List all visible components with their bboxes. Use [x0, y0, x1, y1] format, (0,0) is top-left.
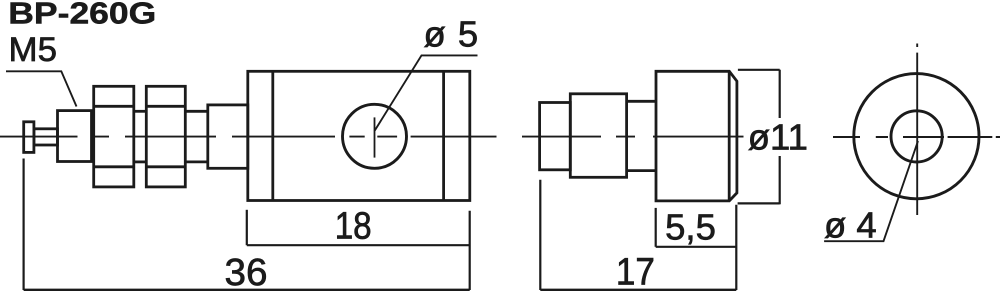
- extension line 17 left: [539, 180, 541, 290]
- svg-text:ø 5: ø 5: [424, 14, 480, 55]
- extension line 36 left: [23, 159, 25, 291]
- svg-text:17: 17: [616, 252, 655, 292]
- dimension line ø11 upper: [779, 70, 781, 118]
- dimension line 36: [24, 289, 470, 291]
- leader M5: [6, 71, 77, 106]
- dimension line ø11 lower: [779, 156, 781, 204]
- svg-text:ø11: ø11: [748, 116, 808, 157]
- centerline middle view: [522, 136, 744, 138]
- neck after ring 2: [185, 110, 208, 113]
- hole vertical centerline: [374, 117, 376, 157]
- stud M5: [34, 129, 58, 145]
- middle neck: [627, 100, 656, 103]
- body edge line right: [442, 71, 445, 200]
- dimension line 5,5: [656, 246, 737, 248]
- right view vertical centerline: [916, 44, 918, 216]
- ring 2 chamfer top: [146, 105, 185, 108]
- extension line 18 left: [246, 210, 248, 245]
- extension line 5,5 left: [655, 208, 657, 247]
- ring 1 chamfer bottom: [94, 165, 134, 168]
- main body 18mm: [248, 71, 470, 200]
- collar: [208, 105, 248, 168]
- extension line ø11 bottom: [738, 202, 780, 204]
- ring 2 chamfer bottom: [146, 165, 185, 168]
- knob chamfer line: [728, 71, 731, 201]
- centerline left view: [0, 136, 497, 138]
- knurled ring 1: [94, 86, 134, 187]
- extension line right shared 5,5/17: [735, 205, 737, 290]
- svg-text:ø 4: ø 4: [824, 204, 877, 245]
- middle small cylinder: [540, 103, 571, 170]
- svg-text:BP-260G: BP-260G: [8, 0, 156, 30]
- dimension line 17: [540, 289, 736, 291]
- svg-text:18: 18: [335, 205, 372, 247]
- svg-text:M5: M5: [9, 31, 58, 69]
- extension line right shared 18/36: [469, 211, 471, 290]
- dimension line 18: [247, 244, 470, 246]
- inter-ring neck: [134, 110, 147, 113]
- right view horizontal centerline: [833, 136, 1000, 138]
- ring 1 chamfer top: [94, 105, 134, 108]
- leader ø5: [375, 55, 478, 130]
- middle cylinder: [570, 94, 626, 178]
- leader ø4: [824, 141, 918, 241]
- right view inner circle ø4: [891, 111, 942, 162]
- hole circle ø5: [343, 104, 407, 168]
- knob body: [656, 71, 737, 201]
- knurled ring 2: [146, 86, 185, 187]
- svg-text:5,5: 5,5: [665, 207, 716, 248]
- svg-text:36: 36: [225, 252, 268, 292]
- body edge line left: [271, 71, 274, 200]
- extension line ø11 top: [738, 69, 780, 71]
- block shaft: [58, 111, 92, 162]
- right view outer circle: [854, 74, 979, 199]
- screw head: [24, 122, 34, 153]
